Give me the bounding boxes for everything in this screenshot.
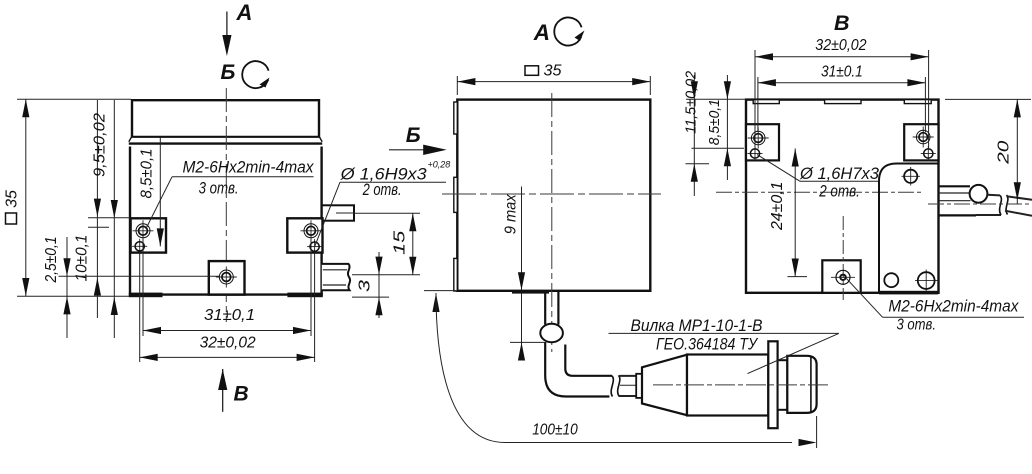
right view: right mounting lug [904,124,938,160]
right view: raised boss panel with rounded corner [879,164,939,295]
svg-text:М2-6Hх2min-4max: М2-6Hх2min-4max [888,297,1018,316]
right view: cable outlet tube [939,186,977,215]
hole callout leader (left view) [315,182,446,246]
svg-text:А: А [533,20,550,45]
dimension 8,5±0,1 (right view) label [706,99,723,145]
dimension 15 extension lines [352,213,420,274]
right view: boss top screw [902,167,921,186]
svg-text:Б: Б [221,61,236,84]
svg-text:35: 35 [544,63,562,80]
left view: vertical centerline [225,88,227,322]
middle view: left edge lug tabs [454,102,458,291]
connector: mounting flange disk [768,341,777,428]
svg-text:20: 20 [996,141,1013,165]
svg-text:9,5±0,02: 9,5±0,02 [92,113,109,177]
dimension 10±0,1 second line with arrows [111,100,118,338]
svg-text:2 отв.: 2 отв. [362,181,402,199]
right view: bottom mounting lug [822,260,860,293]
middle view: cable elbow inner line [565,345,612,376]
svg-text:31±0.1: 31±0.1 [821,63,863,80]
right view: swivel ball [970,185,988,203]
dimension square 35 (top of middle view) line [457,76,650,95]
svg-text:100±10: 100±10 [532,422,578,439]
dimension 24±0,1 line with arrows [788,149,808,277]
view label B (rotation) with circular arrow [221,61,270,88]
right view: right lug threaded hole M2 [913,127,934,148]
right view: left lug threaded hole M2 [748,128,769,149]
svg-text:11,5±0,02: 11,5±0,02 [682,70,699,134]
middle view: cable after break [619,376,643,396]
hole callout 1,6H7x3 text [799,165,880,200]
svg-text:Вилка МР1-10-1-В: Вилка МР1-10-1-В [631,317,763,335]
svg-text:3 отв.: 3 отв. [199,180,239,198]
dimension 20 line with arrows [1014,99,1021,204]
right view: horizontal centerline [716,191,923,193]
left view: right lug threaded hole M2 [301,220,322,241]
middle view: body outline (square 35) [457,100,650,291]
svg-text:ГЕО.364184 ТУ: ГЕО.364184 ТУ [656,335,758,353]
right view: top edge lug tabs [753,100,931,104]
svg-text:А: А [236,0,253,25]
dimension 8,5±0,1 line with arrow [157,138,164,247]
connector callout text [631,317,763,354]
dimension 15 line with arrows [409,213,416,274]
view label B (top of right view) [834,11,850,35]
dimension 32±0,02 (right view) extension lines [755,50,929,148]
view label A (top of middle view) with circular arrow [533,18,585,46]
view arrow A (direction of view A) with label [222,0,252,56]
svg-text:24±0,1: 24±0,1 [769,182,786,232]
dimension square 35 line and arrows [22,99,29,296]
right view: cable after ball with break [976,195,1032,216]
svg-text:2,5±0,1: 2,5±0,1 [43,237,60,284]
svg-text:3 отв.: 3 отв. [897,317,937,334]
middle view: cable gland boss at bottom [512,290,549,294]
thread callout M2-6Hx2min-4max (left view) text [183,158,314,198]
thread callout M2 (right view) text [888,297,1018,334]
left view: bottom lug threaded hole M2 [216,267,237,288]
connector: ferrule step [636,374,642,398]
dimension 3 extension line [352,296,389,298]
svg-text:35: 35 [4,190,21,208]
left view: cable outlet stub with break (right side) [322,264,350,290]
svg-text:8,5±0,1: 8,5±0,1 [706,99,723,145]
svg-text:Б: Б [406,124,421,147]
middle view: cable break squiggle [611,375,620,396]
dimension 100±10 leader curve and arrows [424,291,817,448]
right view: right lug pin hole [921,146,936,161]
thread callout M2 (right view) leader [846,278,1024,317]
extension lines from lug holes down to 31/32 dimensions [140,236,315,362]
svg-text:В: В [834,11,850,35]
svg-text:3: 3 [357,280,374,292]
svg-text:+0,28: +0,28 [428,160,451,170]
svg-text:31±0,1: 31±0,1 [204,307,255,324]
dimension 32±0,02 line and arrows [140,354,315,361]
dimension square 35 label [4,190,21,224]
thread callout leader (left view) [146,177,314,229]
svg-text:32±0,02: 32±0,02 [815,37,867,54]
dimension 3 label [357,280,374,292]
view arrow B (bottom) with label [218,369,249,412]
svg-text:М2-6Hх2min-4max: М2-6Hх2min-4max [183,158,314,177]
dimension square 35 (middle) label [525,63,562,80]
left view: left lug pin hole 1.6 [132,239,147,254]
left view reference lines (lug top, screw axis, base) [59,218,221,276]
right view: body outline [746,100,939,293]
dimension 31±0.1 (right view) extension lines [758,77,926,132]
dimension 11,5±0,02 line with arrows [691,75,698,196]
dimension 9,5±0,02 label [92,113,109,177]
dimension 15 label [392,231,409,255]
hole callout 1,6H9x3 (left view) text [340,160,451,200]
dimension 32±0,02 (right view) label [815,37,867,54]
right view: boss bottom left screw [884,273,898,287]
dimension 32±0,02 (right view) line [755,53,929,60]
left view: right lug pin hole 1.6 [307,239,322,254]
right view: cable axis centerline [928,203,1032,205]
dimension 8,5±0,1 label [139,149,156,199]
dimension 11,5±0,02 label [682,70,699,134]
svg-text:2 отв.: 2 отв. [818,182,860,200]
right view: boss bottom right screw [915,270,938,293]
dimension 9 max line with arrows [510,187,544,361]
connector: conical strain relief [642,355,687,416]
dimension 31±0.1 (right view) label [821,63,863,80]
right view top-left extension lines [686,99,747,164]
dimension 20 label [996,141,1013,165]
svg-text:10±0,1: 10±0,1 [74,235,91,282]
middle view: cable stub below body [545,292,558,325]
dimension 20 extension line [945,98,1031,100]
dimension 2,5±0,1 line with arrows [63,237,70,338]
hole callout 1,6H7x3 leader [757,155,878,182]
middle view: vertical centerline [551,93,553,352]
svg-text:Ø 1,6Н7х3: Ø 1,6Н7х3 [799,165,880,183]
right view: left mounting lug [746,124,779,160]
connector: coupling nut [787,356,816,413]
view arrow B (left of middle view) with label [389,124,447,155]
svg-text:В: В [234,382,249,405]
left view: left mounting lug [131,218,166,252]
dimension 32±0,02 label [200,335,256,352]
svg-text:15: 15 [392,231,409,255]
connector callout leader [609,333,839,373]
middle view: horizontal centerline [442,193,661,195]
svg-text:8,5±0,1: 8,5±0,1 [139,149,156,199]
left view: right mounting lug [287,218,322,252]
dimension 100±10 label [532,422,578,439]
connector: axis centerline [653,384,830,386]
left view: waist groove lines [129,137,322,147]
connector: neck [778,360,788,410]
dimension 31±0,1 label [204,307,255,324]
dimension 10±0,1 label [74,235,91,282]
middle view: cable elbow outer line [545,342,609,397]
right view: bottom lug hole [831,216,855,300]
left view: top cap outline [131,100,320,137]
left view: left lug threaded hole M2 [133,220,154,241]
left view: bottom foot pads (thick base segments) [129,293,323,298]
dimension 31±0,1 line and arrows [143,327,311,334]
dimension 31±0.1 (right view) line [758,79,926,86]
dimension 2,5±0,1 label [43,237,60,284]
connector: cylindrical body [687,355,768,416]
dimension 24±0,1 label [769,182,786,232]
dimension 9 max label [503,193,520,234]
left view: upper guide pin boss (right side) [322,205,354,220]
left view: main body outline [130,147,322,295]
dimension square 35 (left side) extension lines [17,99,131,296]
dimension 8,5±0,1 (right view) line with arrows [724,75,731,180]
middle view: swivel ball [540,324,563,342]
dimension 3 line with arrows [375,252,382,318]
dimension 9,5±0,02 line with arrows [94,100,101,318]
svg-text:9 max: 9 max [503,193,520,234]
left view: bottom mounting lug [209,261,245,295]
right view: left lug pin hole [748,146,763,161]
svg-text:32±0,02: 32±0,02 [200,335,256,352]
